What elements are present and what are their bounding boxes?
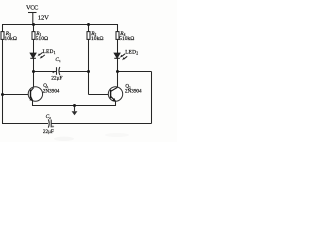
wire R2 branch top: [88, 25, 90, 32]
wire Q2 collector node to right edge: [118, 71, 152, 73]
svg-text:510Ω: 510Ω: [36, 36, 49, 42]
svg-text:C2: C2: [46, 114, 52, 120]
svg-text:22μF: 22μF: [51, 76, 62, 82]
wire base Q1: [3, 94, 31, 96]
svg-text:VCC: VCC: [26, 4, 38, 11]
wire R1 branch top: [33, 25, 35, 32]
wire R3 branch top: [2, 25, 4, 32]
LED2 arrows: [120, 54, 127, 61]
VCC power bar: [28, 12, 37, 14]
wire emitter bus: [33, 101, 116, 106]
wire VCC stub: [32, 13, 34, 25]
LED1 arrows: [38, 52, 45, 59]
transistor Q2: [108, 87, 122, 102]
svg-text:22μF: 22μF: [43, 129, 54, 135]
node dot C1 / R2 / Q2 base: [87, 70, 90, 73]
wire R1 to LED1: [33, 39, 35, 53]
wire bottom C2 line left part: [2, 123, 48, 125]
node dot Q2 collector / C2 link: [116, 70, 119, 73]
LED2 diode: [114, 53, 120, 58]
wire LED2 to Q2 collector: [117, 58, 119, 87]
svg-text:10kΩ: 10kΩ: [4, 36, 17, 42]
node dot rail-R1/VCC: [32, 23, 35, 26]
node dot Q1 base / C2: [1, 93, 4, 96]
resistor R4: [116, 32, 119, 40]
node dot Q1 collector / C1: [32, 70, 35, 73]
resistor R3: [1, 32, 4, 40]
wire left edge R3 to C2 corner: [2, 39, 4, 123]
wire base Q2: [89, 94, 111, 96]
wire LED1 to Q1 collector: [33, 58, 35, 87]
svg-text:510kΩ: 510kΩ: [119, 36, 134, 42]
node dot emitter bus / ground: [73, 104, 76, 107]
wire top VCC rail: [2, 24, 118, 26]
svg-text:10kΩ: 10kΩ: [91, 36, 104, 42]
svg-text:C1: C1: [55, 57, 61, 63]
transistor Q1: [28, 87, 42, 101]
LED1 diode: [30, 53, 36, 58]
capacitor C1: [57, 67, 60, 75]
svg-text:LED1: LED1: [43, 49, 56, 55]
svg-text:LED2: LED2: [125, 50, 138, 56]
wire C1 link right: [59, 71, 88, 73]
capacitor C2: [48, 119, 51, 127]
svg-text:+: +: [52, 70, 55, 75]
wire C1 link left: [34, 71, 57, 73]
svg-text:2N3904: 2N3904: [43, 88, 60, 94]
wire bottom C2 line right part: [52, 123, 152, 125]
scan smudge bottom right: [105, 133, 129, 137]
resistor R2: [87, 32, 90, 40]
node dot rail-R2: [87, 23, 90, 26]
wire R4 branch top: [117, 25, 119, 32]
wire R4 to LED2: [117, 39, 119, 53]
scan smudge bottom left: [54, 137, 74, 141]
resistor R1: [32, 32, 35, 40]
ground: [72, 106, 78, 116]
wire right edge down: [151, 72, 153, 124]
svg-text:12V: 12V: [38, 15, 49, 22]
wire R2 down to C1 node: [88, 39, 90, 94]
svg-text:2N3904: 2N3904: [125, 89, 142, 95]
